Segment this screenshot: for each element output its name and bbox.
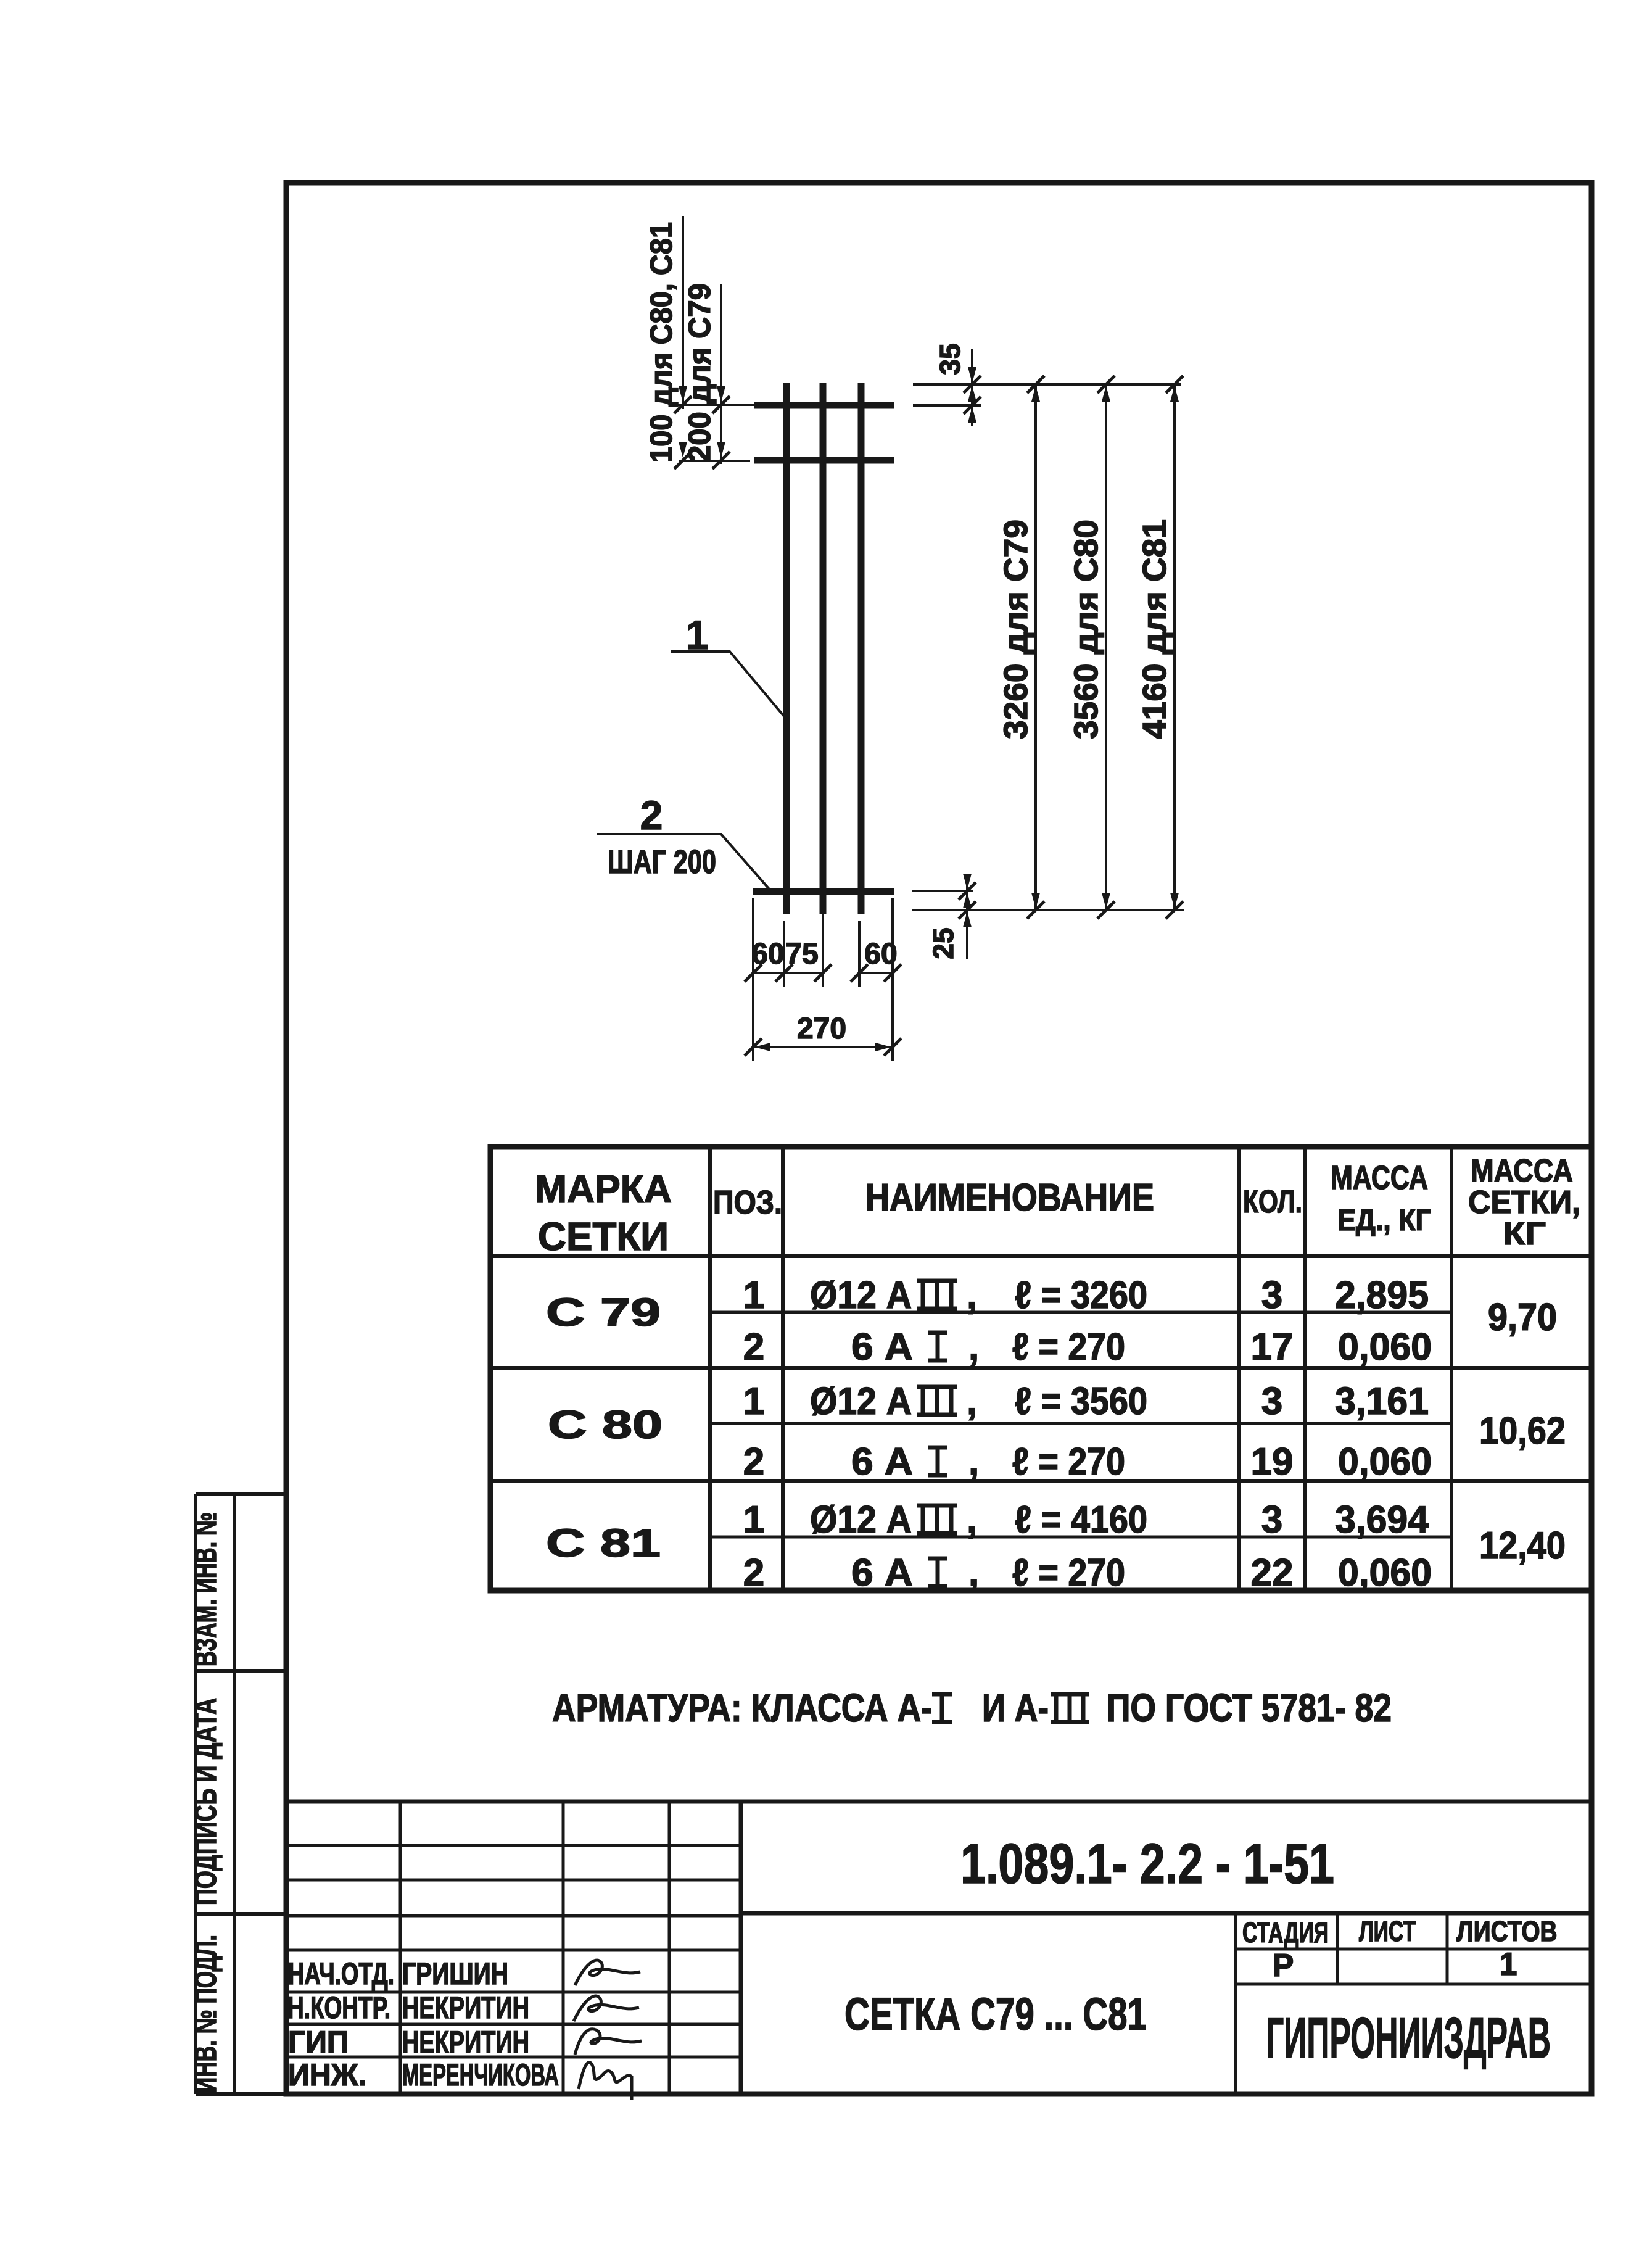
dimension 270: dim line [753,1046,893,1048]
svg-text:25: 25 [927,927,959,959]
svg-text:,: , [968,1552,979,1594]
svg-text:35: 35 [934,343,966,375]
svg-text:60: 60 [864,938,897,971]
bottom spacing dims: extension lines [753,898,893,1061]
svg-text:6 А: 6 А [851,1552,913,1594]
svg-text:ПОЗ.: ПОЗ. [713,1184,782,1221]
svg-text:ПОДПИСЬ И ДАТА: ПОДПИСЬ И ДАТА [188,1698,223,1905]
svg-text:МАССА: МАССА [1331,1159,1428,1196]
svg-text:0,060: 0,060 [1338,1441,1432,1483]
svg-text:1: 1 [1500,1947,1517,1982]
dimension 35: arrow slashes [964,376,981,414]
svg-text:КОЛ.: КОЛ. [1243,1184,1302,1220]
dimension 25: upper extension line [912,890,973,892]
callout 2: leader with shelf [597,834,769,889]
callout 1: leader [671,652,784,716]
svg-text:2,895: 2,895 [1335,1274,1429,1317]
svg-text:75: 75 [785,938,818,971]
table sub-row line C81 [710,1536,1451,1539]
svg-text:ℓ = 270: ℓ = 270 [1012,1441,1125,1483]
svg-text:3: 3 [1261,1499,1282,1541]
mesh longitudinal bar pos.1 (middle) [820,383,827,914]
svg-text:Р: Р [1273,1948,1294,1984]
mesh cross wire pos.2 (top, for C80/C81) [754,402,894,409]
extension tick of second cross wire (left) [679,460,750,462]
svg-text:ПО ГОСТ 5781- 82: ПО ГОСТ 5781- 82 [1107,1686,1392,1730]
svg-text:0,060: 0,060 [1338,1326,1432,1368]
svg-text:ℓ = 270: ℓ = 270 [1012,1326,1125,1368]
svg-text:МЕРЕНЧИКОВА: МЕРЕНЧИКОВА [402,2058,559,2092]
left margin strip borders [196,1494,286,2094]
signature table column lines [400,1802,669,2094]
roman I [928,1447,947,1475]
mesh longitudinal bar pos.1 (left) [783,383,790,914]
dimension 25: dim line [966,881,968,959]
dimension 60 (right): dim line [859,972,893,974]
svg-text:3260 для С79: 3260 для С79 [997,519,1034,739]
svg-text:3,694: 3,694 [1335,1499,1429,1541]
svg-text:,: , [968,1326,979,1368]
dimension 270: arrow slashes [745,1038,901,1056]
dimension 35: top extension line [913,383,1181,386]
svg-text:СЕТКИ,: СЕТКИ, [1468,1185,1580,1220]
svg-text:1.089.1- 2.2 - 1-51: 1.089.1- 2.2 - 1-51 [960,1832,1334,1895]
svg-text:0,060: 0,060 [1338,1552,1432,1594]
svg-text:2: 2 [743,1326,764,1368]
dimension 100 (top overhang for C80,C81): dim line [682,216,684,409]
svg-text:ГИП: ГИП [288,2025,349,2059]
svg-text:СТАДИЯ: СТАДИЯ [1242,1916,1329,1948]
svg-text:100 для С80, С81: 100 для С80, С81 [644,222,679,463]
dimension 60 (left): dim line [753,972,823,974]
dimension 100: arrow slashes [674,396,692,469]
svg-text:МАРКА: МАРКА [535,1167,672,1211]
table sub-row line C79 [710,1311,1451,1314]
svg-text:ВЗАМ. ИНВ. №: ВЗАМ. ИНВ. № [188,1512,223,1666]
svg-text:ИНВ. № ПОДЛ.: ИНВ. № ПОДЛ. [188,1935,223,2093]
svg-text:17: 17 [1251,1326,1294,1368]
svg-text:Н.КОНТР.: Н.КОНТР. [287,1990,390,2025]
svg-text:И А-: И А- [982,1686,1049,1730]
svg-text:1: 1 [686,612,709,658]
svg-text:НАЧ.ОТД.: НАЧ.ОТД. [288,1956,394,1991]
svg-text:НЕКРИТИН: НЕКРИТИН [402,1990,529,2025]
roman I [928,1558,947,1586]
dimension 4160: arrow slashes [1166,376,1183,919]
svg-text:22: 22 [1251,1552,1294,1594]
svg-text:МАССА: МАССА [1471,1153,1573,1189]
svg-text:ШАГ 200: ШАГ 200 [608,843,716,880]
svg-text:СЕТКИ: СЕТКИ [538,1214,669,1259]
specification table outer border [490,1147,1592,1591]
svg-text:ℓ = 3260: ℓ = 3260 [1015,1274,1147,1317]
signature table row lines [286,1845,741,2057]
signature squiggle 4 [579,2063,632,2100]
svg-text:ГИПРОНИИЗДРАВ: ГИПРОНИИЗДРАВ [1266,2005,1551,2070]
roman III [917,1387,957,1415]
svg-text:С 81: С 81 [546,1521,661,1565]
svg-text:1: 1 [743,1274,764,1317]
dimension 25: lower extension line [912,909,1184,911]
table sub-row line C80 [710,1422,1451,1425]
dimension 3560 for C80: dim line [1105,384,1107,910]
svg-text:2: 2 [743,1552,764,1594]
drawing sheet frame [286,183,1592,2094]
svg-text:3: 3 [1261,1274,1282,1317]
table column line (Марка/Поз) [708,1147,712,1591]
table column line (Масса ед/Масса сетки) [1450,1147,1453,1591]
svg-text:3,161: 3,161 [1335,1380,1429,1423]
svg-text:19: 19 [1251,1441,1294,1483]
dimension 200: arrow slashes [712,396,730,469]
svg-text:НЕКРИТИН: НЕКРИТИН [402,2025,529,2059]
svg-text:2: 2 [640,792,663,838]
mesh cross wire pos.2 (second, for C79) [754,457,894,464]
svg-text:НАИМЕНОВАНИЕ: НАИМЕНОВАНИЕ [865,1177,1154,1219]
table column line (Наименование/Кол) [1237,1147,1241,1591]
svg-text:10,62: 10,62 [1479,1410,1566,1452]
dimension 3260 for C79: dim line [1034,384,1037,910]
signature squiggle 1 [575,1960,640,1985]
signature squiggle 3 [575,2029,642,2055]
svg-text:1: 1 [743,1380,764,1423]
dimension 35: dim line [971,349,973,426]
dimension 200 (top overhang for C79): dim line [720,284,722,464]
svg-text:,: , [968,1441,979,1483]
extension tick of top cross wire (left) [670,404,759,406]
svg-text:60: 60 [751,938,784,971]
note roman III [1051,1694,1089,1722]
svg-text:ℓ = 270: ℓ = 270 [1012,1552,1125,1594]
svg-text:270: 270 [797,1012,846,1045]
svg-text:4160 для С81: 4160 для С81 [1136,519,1173,739]
title block top border [286,1800,1592,1804]
svg-text:С 80: С 80 [548,1402,663,1447]
svg-text:3: 3 [1261,1380,1282,1423]
stage block borders [1236,1913,1592,2094]
svg-text:ЛИСТ: ЛИСТ [1359,1915,1416,1947]
svg-text:КГ: КГ [1503,1216,1546,1252]
dimension arrowhead darts [679,367,1179,1051]
dimension 4160 for C81: dim line [1173,384,1176,910]
dimension 3560: arrow slashes [1097,376,1115,919]
svg-text:,: , [967,1499,977,1541]
svg-text:СЕТКА С79 ... С81: СЕТКА С79 ... С81 [844,1989,1147,2040]
svg-text:С 79: С 79 [546,1290,661,1335]
table column line (Поз/Наименование) [781,1147,785,1591]
table row line C80/C81 [490,1479,1592,1483]
svg-text:ℓ = 4160: ℓ = 4160 [1015,1499,1147,1541]
dimension 35: lower extension line [913,404,981,407]
mesh cross wire pos.2 (bottom) [753,888,894,895]
table column line (Кол/Масса ед) [1303,1147,1307,1591]
svg-text:1: 1 [743,1499,764,1541]
title block divider (signatures / doc number) [739,1802,743,2094]
table header bottom line [490,1254,1592,1258]
svg-text:2: 2 [743,1441,764,1483]
signature squiggle 2 [574,1996,639,2021]
svg-text:3560 для С80: 3560 для С80 [1068,519,1105,739]
svg-text:6 А: 6 А [851,1326,913,1368]
svg-text:ℓ = 3560: ℓ = 3560 [1015,1380,1147,1423]
svg-text:ЕД., КГ: ЕД., КГ [1337,1204,1431,1237]
note roman I [932,1694,952,1722]
roman III [917,1505,957,1533]
svg-text:,: , [967,1380,977,1423]
dimension 3260: arrow slashes [1027,376,1044,919]
dimension 25: arrow slashes [959,882,976,919]
roman III [917,1281,957,1309]
svg-text:ЛИСТОВ: ЛИСТОВ [1457,1915,1558,1947]
table row line C79/C80 [490,1366,1592,1370]
svg-text:9,70: 9,70 [1488,1296,1557,1339]
svg-text:6 А: 6 А [851,1441,913,1483]
svg-text:,: , [967,1274,977,1317]
svg-text:Ø12 А: Ø12 А [810,1380,912,1423]
roman I [928,1333,947,1360]
svg-text:ГРИШИН: ГРИШИН [402,1956,508,1991]
spacing dim arrow slashes [745,964,901,982]
mesh longitudinal bar pos.1 (right) [858,383,865,914]
svg-text:ИНЖ.: ИНЖ. [288,2058,366,2092]
line under document number [741,1911,1592,1916]
svg-text:АРМАТУРА: КЛАССА А-: АРМАТУРА: КЛАССА А- [552,1686,932,1730]
svg-text:Ø12 А: Ø12 А [810,1274,912,1317]
svg-text:Ø12 А: Ø12 А [810,1499,912,1541]
svg-text:200 для С79: 200 для С79 [682,283,717,462]
svg-text:12,40: 12,40 [1479,1525,1566,1567]
